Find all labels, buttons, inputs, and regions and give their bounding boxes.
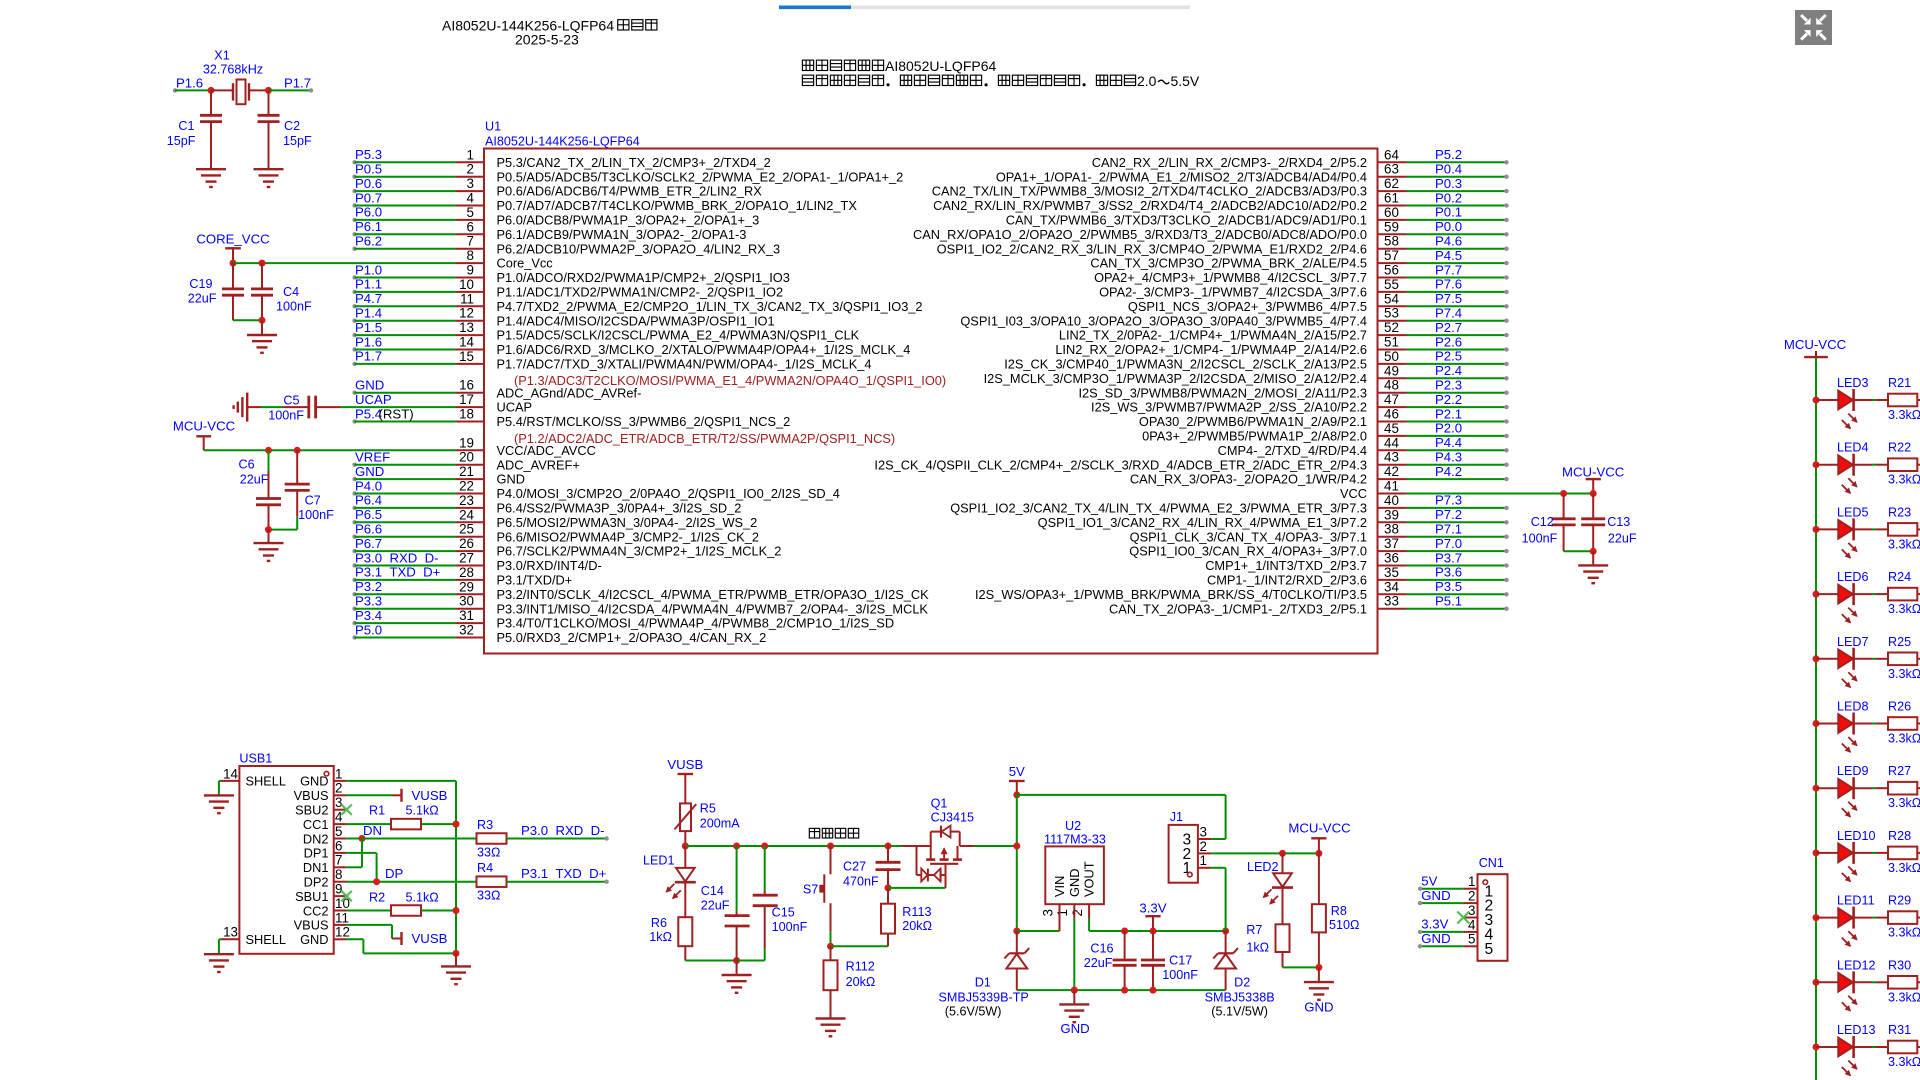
pin 43 (right) <box>1378 464 1407 466</box>
node junction <box>259 317 266 324</box>
svg-text:GND: GND <box>1060 1021 1089 1036</box>
svg-text:P7.1: P7.1 <box>1435 522 1462 537</box>
svg-text:3.3kΩ: 3.3kΩ <box>1888 408 1920 422</box>
svg-text:33: 33 <box>1384 594 1399 609</box>
svg-text:LED10: LED10 <box>1837 829 1876 843</box>
USB1 pin 7 (DN1) <box>334 866 347 868</box>
USB1 pin 1 (GND) <box>334 780 347 782</box>
svg-text:3.3kΩ: 3.3kΩ <box>1888 990 1920 1004</box>
connector USB1 body <box>239 766 333 954</box>
svg-text:VCC: VCC <box>1340 486 1367 501</box>
svg-text:P6.7: P6.7 <box>355 536 382 551</box>
svg-text:R8: R8 <box>1331 904 1347 918</box>
node junction <box>1222 928 1229 935</box>
svg-text:P2.4: P2.4 <box>1435 363 1462 378</box>
svg-text:P1.4: P1.4 <box>355 306 382 321</box>
USB1 pin 2 (VBUS) <box>334 794 347 796</box>
svg-text:P0.0: P0.0 <box>1435 219 1462 234</box>
pin 1 marker <box>324 771 329 776</box>
svg-text:CC1: CC1 <box>303 817 329 832</box>
svg-text:3.3kΩ: 3.3kΩ <box>1888 537 1920 551</box>
svg-text:3.3kΩ: 3.3kΩ <box>1888 1055 1920 1069</box>
svg-text:47: 47 <box>1384 392 1399 407</box>
svg-text:R23: R23 <box>1888 505 1911 519</box>
svg-text:S7: S7 <box>803 883 818 897</box>
ground <box>1073 990 1075 1004</box>
ground <box>1578 564 1608 566</box>
svg-text:P1.1: P1.1 <box>355 277 382 292</box>
svg-text:5: 5 <box>1485 941 1494 958</box>
svg-text:P5.4/RST/MCLKO/SS_3/PWMB6_2/QS: P5.4/RST/MCLKO/SS_3/PWMB6_2/QSPI1_NCS_2 <box>497 414 791 429</box>
svg-text:16: 16 <box>459 378 474 393</box>
pin 54 (right) <box>1378 305 1407 307</box>
svg-text:46: 46 <box>1384 407 1399 422</box>
svg-text:C27: C27 <box>843 859 866 873</box>
svg-text:DN1: DN1 <box>303 860 329 875</box>
svg-text:MCU-VCC: MCU-VCC <box>173 419 236 434</box>
switch S7 <box>830 846 832 874</box>
svg-text:P4.6: P4.6 <box>1435 234 1462 249</box>
svg-text:R22: R22 <box>1888 441 1911 455</box>
svg-text:MCU-VCC: MCU-VCC <box>1288 821 1351 836</box>
svg-text:5V: 5V <box>1009 764 1025 779</box>
svg-text:11: 11 <box>335 910 349 925</box>
svg-text:QSPI1_IO0_3/CAN_RX_4/OPA3+_3/P: QSPI1_IO0_3/CAN_RX_4/OPA3+_3/P7.0 <box>1129 544 1367 559</box>
wire J1 pin2 to MCU-VCC <box>1211 852 1319 854</box>
pin 46 (right) <box>1378 421 1407 423</box>
svg-text:6: 6 <box>335 838 342 853</box>
svg-text:OPA1+_1/OPA1-_2/PWMA_E1_2/MISO: OPA1+_1/OPA1-_2/PWMA_E1_2/MISO2_2/T3/ADC… <box>996 169 1367 184</box>
capacitor C4 <box>261 263 263 289</box>
svg-text:22uF: 22uF <box>1084 956 1113 970</box>
svg-text:6: 6 <box>467 219 474 234</box>
svg-text:P4.0/MOSI_3/CMP2O_2/0PA4O_2/QS: P4.0/MOSI_3/CMP2O_2/0PA4O_2/QSPI1_IO0_2/… <box>497 486 840 501</box>
pin 23 (left) <box>352 506 356 510</box>
svg-text:R2: R2 <box>369 891 385 905</box>
node junction LED4 <box>1813 461 1820 468</box>
svg-text:P3.7: P3.7 <box>1435 550 1462 565</box>
J1 pin 1 <box>1198 867 1211 869</box>
CN1 pin 3 <box>1463 917 1477 919</box>
wire to VIN <box>1017 930 1060 932</box>
node junction <box>230 260 237 267</box>
svg-text:P6.5/MOSI2/PWMA3N_3/0PA4-_2/I2: P6.5/MOSI2/PWMA3N_3/0PA4-_2/I2S_WS_2 <box>497 515 758 530</box>
svg-text:25: 25 <box>459 522 474 537</box>
svg-text:GND: GND <box>1067 869 1082 897</box>
wire bottom gnd rail <box>1017 989 1226 991</box>
svg-text:P6.4: P6.4 <box>355 493 382 508</box>
svg-text:CAN2_RX_2/LIN_RX_2/CMP3-_2/RXD: CAN2_RX_2/LIN_RX_2/CMP3-_2/RXD4_2/P5.2 <box>1092 155 1367 170</box>
capacitor C15 <box>764 846 766 891</box>
svg-text:I2S_SD_3/PWMB8/PWMA2N_2/MOSI_2: I2S_SD_3/PWMB8/PWMA2N_2/MOSI_2/A11/P2.3 <box>1078 385 1367 400</box>
pin 14 (SHELL) <box>222 780 240 782</box>
svg-text:2: 2 <box>1070 909 1085 916</box>
svg-text:23: 23 <box>459 493 474 508</box>
capacitor C2 <box>268 90 270 115</box>
resistor R26 <box>1888 717 1917 730</box>
resistor R7 <box>1276 924 1290 952</box>
power flag 5V <box>1009 780 1025 782</box>
wire to pin 19 <box>204 449 456 451</box>
svg-text:P5.1: P5.1 <box>1435 594 1462 609</box>
svg-text:U1: U1 <box>485 120 501 134</box>
svg-text:3.3V: 3.3V <box>1421 917 1448 932</box>
diode LED6 <box>1816 593 1838 595</box>
pin 24 (left) <box>352 520 356 524</box>
node junction <box>1315 850 1322 857</box>
svg-text:U2: U2 <box>1065 819 1081 833</box>
svg-text:LIN2_RX_2/OPA2+_1/CMP4-_1/PWMA: LIN2_RX_2/OPA2+_1/CMP4-_1/PWMA4P_2/A14/P… <box>1055 342 1367 357</box>
resistor R6 <box>678 917 692 946</box>
svg-text:CJ3415: CJ3415 <box>931 811 974 825</box>
svg-text:38: 38 <box>1384 522 1399 537</box>
wire DN1 up <box>347 866 362 868</box>
svg-text:3.3kΩ: 3.3kΩ <box>1888 926 1920 940</box>
svg-text:13: 13 <box>459 320 474 335</box>
svg-text:LED4: LED4 <box>1837 441 1869 455</box>
svg-text:P1.7/ADC7/TXD_3/XTALI/PWMA4N/P: P1.7/ADC7/TXD_3/XTALI/PWMA4N/PWM/OPA4-_1… <box>497 357 872 372</box>
svg-text:2: 2 <box>1200 839 1207 854</box>
resistor R28 <box>1888 847 1917 860</box>
pin 58 (right) <box>1378 248 1407 250</box>
svg-text:P3.4: P3.4 <box>355 608 382 623</box>
svg-text:P7.3: P7.3 <box>1435 493 1462 508</box>
wire <box>269 89 312 91</box>
diode LED9 <box>1816 787 1838 789</box>
svg-text:VUSB: VUSB <box>412 931 448 946</box>
svg-text:8: 8 <box>467 248 474 263</box>
pin 34 (right) <box>1378 593 1407 595</box>
svg-text:C2: C2 <box>284 119 300 133</box>
svg-text:29: 29 <box>459 579 474 594</box>
node junction <box>1279 850 1286 857</box>
svg-text:J1: J1 <box>1170 810 1183 824</box>
pin 1 (left) <box>352 160 356 164</box>
pin 50 (right) <box>1378 363 1407 365</box>
svg-text:2: 2 <box>335 781 342 796</box>
capacitor C19 <box>232 263 234 289</box>
pin 21 (left) <box>352 477 356 481</box>
capacitor C1 <box>210 90 212 115</box>
wire LED chain bus <box>1815 357 1817 1080</box>
svg-text:P5.2: P5.2 <box>1435 147 1462 162</box>
resistor R113 <box>887 888 889 904</box>
no-connect pin3 <box>341 805 351 815</box>
svg-text:P3.0 RXD D-: P3.0 RXD D- <box>355 550 439 565</box>
pin 9 (left) <box>352 275 356 279</box>
svg-text:GND: GND <box>1304 1000 1333 1015</box>
svg-text:P5.0/RXD3_2/CMP1+_2/OPA3O_4/CA: P5.0/RXD3_2/CMP1+_2/OPA3O_4/CAN_RX_2 <box>497 630 767 645</box>
pin 55 (right) <box>1378 291 1407 293</box>
svg-text:LED2: LED2 <box>1247 860 1279 874</box>
pin 5 (left) <box>352 218 356 222</box>
fullscreen exit icon <box>1795 10 1832 45</box>
svg-text:MCU-VCC: MCU-VCC <box>1784 337 1847 352</box>
ground <box>196 168 226 170</box>
pin 44 (right) <box>1378 449 1407 451</box>
svg-text:I2S_WS/OPA3+_1/PWMB_BRK/PWMA_B: I2S_WS/OPA3+_1/PWMB_BRK/PWMA_BRK/SS_4/T0… <box>975 587 1367 602</box>
pin 28 (left) <box>352 578 356 582</box>
node junction <box>208 87 215 94</box>
svg-text:9: 9 <box>335 882 342 897</box>
pin 25 (left) <box>352 535 356 539</box>
CN1 pin 4 <box>1463 931 1477 933</box>
pin 62 (right) <box>1378 190 1407 192</box>
pin 14 (left) <box>352 347 356 351</box>
wire J1 pin3 to 5V <box>1211 838 1225 840</box>
svg-text:17: 17 <box>459 392 474 407</box>
CN1 pin 1 <box>1463 888 1477 890</box>
node junction LED12 <box>1813 979 1820 986</box>
svg-text:12: 12 <box>335 925 350 940</box>
svg-text:LED13: LED13 <box>1837 1023 1876 1037</box>
svg-text:3: 3 <box>335 795 342 810</box>
transistor Q1 (CJ3415) <box>902 845 931 847</box>
svg-text:19: 19 <box>459 435 474 450</box>
CN1 pin1 marker <box>1483 880 1488 885</box>
svg-text:P5.3: P5.3 <box>355 147 382 162</box>
svg-text:DP: DP <box>385 866 404 881</box>
svg-text:30: 30 <box>459 594 474 609</box>
svg-text:(5.6V/5W): (5.6V/5W) <box>945 1004 1002 1018</box>
svg-text:VBUS: VBUS <box>294 788 329 803</box>
svg-text:P4.3: P4.3 <box>1435 450 1462 465</box>
node junction <box>265 87 272 94</box>
pin 63 (right) <box>1378 176 1407 178</box>
svg-text:P7.4: P7.4 <box>1435 306 1462 321</box>
svg-text:P3.6: P3.6 <box>1435 565 1462 580</box>
svg-text:VBUS: VBUS <box>294 918 329 933</box>
svg-text:20kΩ: 20kΩ <box>902 919 932 933</box>
capacitor C17 <box>1152 931 1154 960</box>
svg-text:GND: GND <box>1421 931 1450 946</box>
svg-text:1: 1 <box>335 766 342 781</box>
svg-text:3: 3 <box>1040 909 1055 916</box>
svg-text:0PA3+_2/PWMB5/PWMA1P_2/A8/P2.0: 0PA3+_2/PWMB5/PWMA1P_2/A8/P2.0 <box>1142 429 1367 444</box>
fuse R5 <box>680 803 691 831</box>
J1 pin 2 <box>1198 852 1211 854</box>
svg-text:37: 37 <box>1384 536 1399 551</box>
resistor R24 <box>1888 588 1917 601</box>
svg-text:P2.0: P2.0 <box>1435 421 1462 436</box>
svg-text:R27: R27 <box>1888 764 1911 778</box>
pin 26 (left) <box>352 549 356 553</box>
svg-text:3.3kΩ: 3.3kΩ <box>1888 796 1920 810</box>
svg-text:P3.2/INT0/SCLK_4/I2CSCL_4/PWMA: P3.2/INT0/SCLK_4/I2CSCL_4/PWMA_ETR/PWMB_… <box>497 587 930 602</box>
svg-text:CORE_VCC: CORE_VCC <box>196 231 270 246</box>
svg-text:P1.6: P1.6 <box>355 334 382 349</box>
svg-text:CAN_TX_3/CMP3O_2/PWMA_BRK_2/AL: CAN_TX_3/CMP3O_2/PWMA_BRK_2/ALE/P4.5 <box>1090 256 1367 271</box>
svg-text:OPA2-_3/CMP3-_1/PWMB7_4/I2CSDA: OPA2-_3/CMP3-_1/PWMB7_4/I2CSDA_3/P7.6 <box>1099 285 1367 300</box>
pin 64 (right) <box>1378 161 1407 163</box>
svg-text:100nF: 100nF <box>772 920 808 934</box>
svg-text:P7.5: P7.5 <box>1435 291 1462 306</box>
svg-text:P3.5: P3.5 <box>1435 579 1462 594</box>
pin 15 (left) <box>352 362 356 366</box>
svg-text:DP1: DP1 <box>304 846 329 861</box>
svg-text:P3.2: P3.2 <box>355 579 382 594</box>
wire / net 3.3V <box>1420 931 1463 933</box>
pin 52 (right) <box>1378 334 1407 336</box>
svg-text:34: 34 <box>1384 579 1399 594</box>
svg-text:R4: R4 <box>477 861 493 875</box>
svg-text:20: 20 <box>459 450 474 465</box>
svg-text:100nF: 100nF <box>1162 968 1198 982</box>
pin 45 (right) <box>1378 435 1407 437</box>
resistor R29 <box>1888 911 1917 924</box>
svg-text:DN2: DN2 <box>303 831 329 846</box>
svg-text:P0.5: P0.5 <box>355 162 382 177</box>
svg-text:GND: GND <box>1421 888 1450 903</box>
svg-text:4: 4 <box>467 191 475 206</box>
wire to pin 17 <box>341 406 456 408</box>
svg-text:LED9: LED9 <box>1837 764 1869 778</box>
svg-text:510Ω: 510Ω <box>1329 918 1359 932</box>
svg-text:P3.0/RXD/INT4/D-: P3.0/RXD/INT4/D- <box>497 558 602 573</box>
svg-text:C6: C6 <box>238 458 254 472</box>
svg-text:42: 42 <box>1384 464 1399 479</box>
pin 17 (left) <box>456 406 485 408</box>
diode LED13 <box>1816 1046 1838 1048</box>
svg-text:4: 4 <box>335 810 343 825</box>
pin 22 (left) <box>352 491 356 495</box>
svg-text:5: 5 <box>1468 932 1475 947</box>
node junction <box>1013 843 1020 850</box>
svg-text:P0.5/AD5/ADCB5/T3CLKO/SCLK2_2/: P0.5/AD5/ADCB5/T3CLKO/SCLK2_2/PWMA_E2_2/… <box>497 169 904 184</box>
svg-text:48: 48 <box>1384 378 1399 393</box>
pin 47 (right) <box>1378 406 1407 408</box>
svg-text:P6.0: P6.0 <box>355 205 382 220</box>
svg-text:15pF: 15pF <box>167 134 196 148</box>
svg-text:R3: R3 <box>477 818 493 832</box>
svg-text:3: 3 <box>467 176 474 191</box>
wire 5V down <box>1016 795 1018 931</box>
svg-text:33Ω: 33Ω <box>477 846 500 860</box>
pin 61 (right) <box>1378 205 1407 207</box>
resistor R30 <box>1888 976 1917 989</box>
pin 32 (left) <box>352 635 356 639</box>
diode LED11 <box>1816 917 1838 919</box>
svg-text:P2.7: P2.7 <box>1435 320 1462 335</box>
wire / net GND <box>1420 945 1463 947</box>
svg-text:P7.6: P7.6 <box>1435 277 1462 292</box>
CN1 pin 5 <box>1463 945 1477 947</box>
svg-text:43: 43 <box>1384 450 1399 465</box>
svg-text:P3.0 RXD D-: P3.0 RXD D- <box>521 823 605 838</box>
svg-text:P4.7: P4.7 <box>355 291 382 306</box>
U2 pin VIN <box>1059 904 1061 931</box>
svg-text:QSPI1_IO1_3/CAN2_RX_4/LIN_RX_4: QSPI1_IO1_3/CAN2_RX_4/LIN_RX_4/PWMA_E1_3… <box>1038 515 1367 530</box>
node junction <box>827 843 834 850</box>
svg-text:100nF: 100nF <box>1522 531 1558 545</box>
svg-text:I2S_CK_3/CMP40_1/PWMA3N_2/I2CS: I2S_CK_3/CMP40_1/PWMA3N_2/I2CSCL_2/SCLK_… <box>1004 357 1367 372</box>
svg-text:63: 63 <box>1384 162 1399 177</box>
svg-text:P6.2/ADCB10/PWMA2P_3/OPA2O_4/L: P6.2/ADCB10/PWMA2P_3/OPA2O_4/LIN2_RX_3 <box>497 241 781 256</box>
svg-text:P7.2: P7.2 <box>1435 507 1462 522</box>
resistor R25 <box>1888 653 1917 666</box>
svg-text:(RST): (RST) <box>379 406 414 421</box>
wire DN net <box>347 838 362 840</box>
net port P1.6 <box>173 88 177 92</box>
resistor R22 <box>1888 458 1917 471</box>
svg-text:C13: C13 <box>1607 515 1630 529</box>
svg-text:3: 3 <box>1200 824 1207 839</box>
svg-text:50: 50 <box>1384 349 1399 364</box>
node junction <box>259 260 266 267</box>
wire to pin 8 <box>233 262 456 264</box>
svg-text:27: 27 <box>459 551 474 566</box>
USB1 pin 12 (GND) <box>334 938 347 940</box>
node junction <box>1590 490 1597 497</box>
node junction <box>265 447 272 454</box>
ground <box>1304 981 1334 983</box>
svg-text:41: 41 <box>1384 479 1399 494</box>
svg-text:C1: C1 <box>178 119 194 133</box>
svg-text:5V: 5V <box>1421 874 1437 889</box>
svg-text:SMBJ5339B-TP: SMBJ5339B-TP <box>939 991 1029 1005</box>
svg-text:P2.6: P2.6 <box>1435 334 1462 349</box>
svg-text:(P1.3/ADC3/T2CLKO/MOSI/PWMA_E1: (P1.3/ADC3/T2CLKO/MOSI/PWMA_E1_4/PWMA2N/… <box>514 373 946 388</box>
svg-text:VIN: VIN <box>1052 876 1067 897</box>
svg-text:3.3kΩ: 3.3kΩ <box>1888 861 1920 875</box>
pin 51 (right) <box>1378 349 1407 351</box>
svg-text:D2: D2 <box>1234 976 1250 990</box>
node junction LED5 <box>1813 526 1820 533</box>
svg-text:4: 4 <box>1468 917 1476 932</box>
netflag VUSB (pin2) <box>347 794 392 796</box>
svg-text:2: 2 <box>467 162 474 177</box>
svg-text:CAN_RX_3/OPA3-_2/OPA2O_1/WR/P4: CAN_RX_3/OPA3-_2/OPA2O_1/WR/P4.2 <box>1130 472 1367 487</box>
svg-text:R30: R30 <box>1888 958 1911 972</box>
node junction LED6 <box>1813 591 1820 598</box>
svg-text:3.3kΩ: 3.3kΩ <box>1888 732 1920 746</box>
svg-text:MCU-VCC: MCU-VCC <box>1562 465 1625 480</box>
svg-text:3: 3 <box>1468 903 1475 918</box>
svg-text:2.0: 2.0 <box>1137 73 1157 89</box>
svg-text:C4: C4 <box>283 285 299 299</box>
svg-text:LED6: LED6 <box>1837 570 1869 584</box>
svg-text:52: 52 <box>1384 320 1399 335</box>
wire pin12 GND <box>347 938 364 940</box>
pin 41 (right) <box>1378 493 1407 495</box>
pin 48 (right) <box>1378 392 1407 394</box>
svg-text:P6.0/ADCB8/PWMA1P_3/OPA2+_2/OP: P6.0/ADCB8/PWMA1P_3/OPA2+_2/OPA1+_3 <box>497 213 760 228</box>
node junction <box>1013 928 1020 935</box>
svg-text:P0.1: P0.1 <box>1435 205 1462 220</box>
svg-text:C12: C12 <box>1531 515 1554 529</box>
svg-text:49: 49 <box>1384 363 1399 378</box>
svg-text:CMP1-_1/INT2/RXD_2/P3.6: CMP1-_1/INT2/RXD_2/P3.6 <box>1207 573 1367 588</box>
svg-text:DN: DN <box>363 823 382 838</box>
capacitor C5 <box>247 406 261 408</box>
diode LED12 <box>1816 981 1838 983</box>
svg-text:C7: C7 <box>305 494 321 508</box>
wire <box>175 89 211 91</box>
svg-text:OPA2+_4/CMP3+_1/PWMB8_4/I2CSCL: OPA2+_4/CMP3+_1/PWMB8_4/I2CSCL_3/P7.7 <box>1094 270 1367 285</box>
svg-text:51: 51 <box>1384 335 1399 350</box>
svg-text:31: 31 <box>459 608 474 623</box>
pin 11 (left) <box>352 304 356 308</box>
resistor R1 <box>347 823 391 825</box>
svg-text:100nF: 100nF <box>268 409 304 423</box>
ground <box>204 953 234 955</box>
svg-text:11: 11 <box>460 291 474 306</box>
svg-text:SHELL: SHELL <box>246 932 287 947</box>
svg-text:39: 39 <box>1384 507 1399 522</box>
svg-text:P6.1: P6.1 <box>355 219 382 234</box>
svg-text:R25: R25 <box>1888 635 1911 649</box>
pin 49 (right) <box>1378 377 1407 379</box>
